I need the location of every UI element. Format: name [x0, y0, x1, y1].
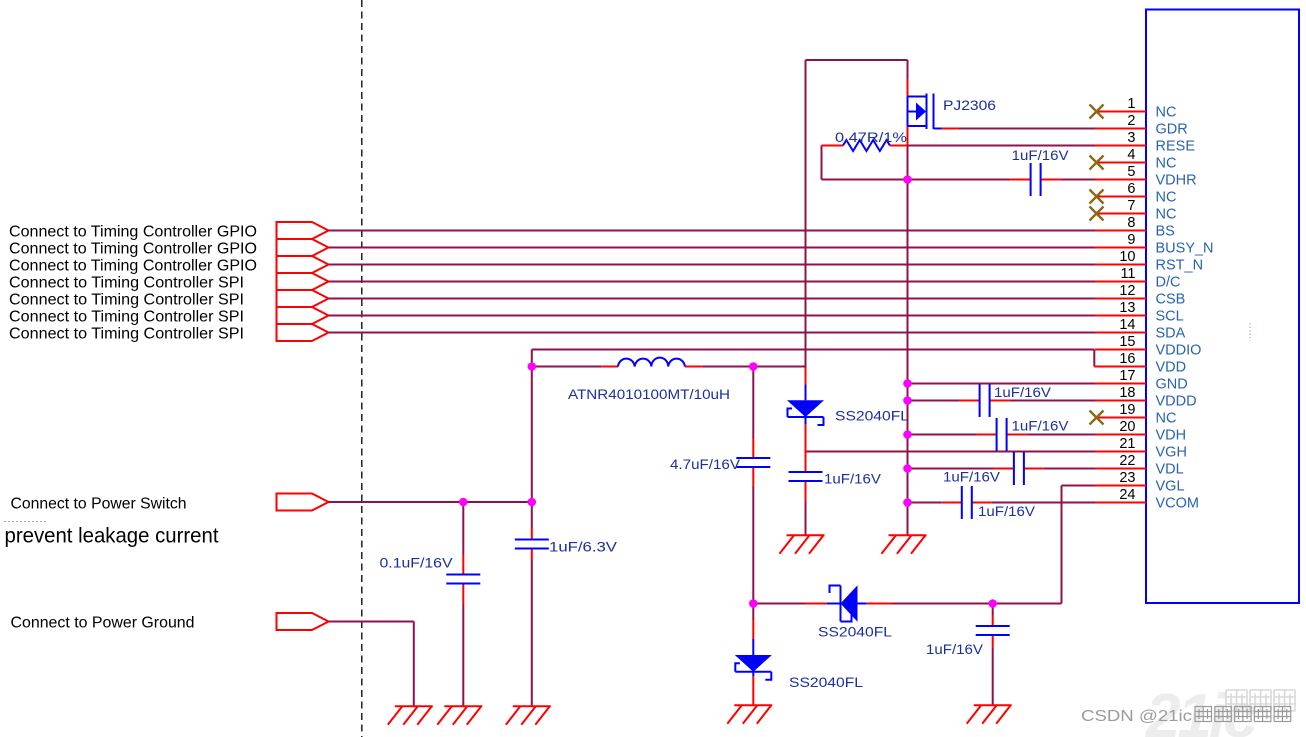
ground G5 (C10) — [967, 705, 1012, 724]
svg-text:ATNR4010100MT/10uH: ATNR4010100MT/10uH — [568, 386, 730, 402]
svg-text:prevent leakage current: prevent leakage current — [5, 525, 219, 548]
pin 20 stub — [1095, 434, 1146, 436]
svg-text:PJ2306: PJ2306 — [943, 97, 996, 113]
wire CSB row pin12 — [329, 298, 1096, 300]
svg-text:VDH: VDH — [1156, 428, 1187, 444]
svg-text:NC: NC — [1156, 156, 1177, 172]
node junction GND bus top — [903, 175, 912, 184]
wire D1 to VGH row and cap to ground — [805, 417, 807, 424]
node junction power row / V0 — [528, 498, 537, 507]
ground G3 (1uF/6.3V) — [506, 706, 551, 725]
svg-text:21: 21 — [1119, 436, 1135, 452]
port arrow Timing Controller line 2 — [277, 239, 329, 256]
port arrow Timing Controller line 1 — [277, 222, 329, 239]
wire VDH pin20 row with cap — [908, 434, 1096, 436]
pin 16 stub — [1094, 366, 1146, 368]
port arrow Timing Controller line 4 — [277, 273, 329, 290]
svg-text:1uF/16V: 1uF/16V — [1012, 418, 1070, 434]
pin 13 stub — [1095, 315, 1146, 317]
capacitor C2 4.7uF/16V — [736, 458, 770, 467]
wire VDDD pin18 row with cap — [908, 400, 1096, 402]
svg-text:1: 1 — [1127, 96, 1135, 112]
port arrow Power Ground — [277, 613, 329, 630]
pin 15 stub — [1095, 349, 1146, 351]
wire power ground run — [329, 622, 414, 707]
svg-text:Connect to Timing Controller G: Connect to Timing Controller GPIO — [9, 241, 257, 258]
wire left vertical drop x=805.5 (top loop to diode D1) — [805, 60, 807, 368]
pin 1 stub — [1095, 111, 1146, 113]
node junction GND bus p17 — [903, 379, 912, 388]
ground G2 (0.1uF) — [437, 706, 482, 725]
wire cap E branch x=992.7 — [992, 604, 994, 706]
wire BS row pin8 — [329, 230, 1096, 232]
capacitor C10 1uF/16V (VGL) — [976, 626, 1010, 635]
pin 6 stub — [1095, 196, 1146, 198]
pin 17 stub — [1095, 383, 1146, 385]
node junction GND bus p24 — [903, 498, 912, 507]
svg-text:4.7uF/16V: 4.7uF/16V — [670, 456, 741, 472]
svg-text:NC: NC — [1156, 207, 1177, 223]
no-connect X pin 7 — [1090, 207, 1104, 221]
svg-text:GND: GND — [1156, 377, 1188, 393]
svg-text:2: 2 — [1127, 113, 1135, 129]
svg-text:RESE: RESE — [1156, 139, 1196, 155]
pin 3 stub — [1095, 145, 1146, 147]
pin 21 stub — [1095, 451, 1146, 453]
svg-text:D/C: D/C — [1156, 275, 1181, 291]
svg-text:12: 12 — [1119, 283, 1135, 299]
pin 8 stub — [1095, 230, 1146, 232]
node junction GND bus p18 — [903, 396, 912, 405]
wire GND pin17 row — [908, 383, 1096, 385]
svg-text:3: 3 — [1127, 130, 1135, 146]
svg-text:CSB: CSB — [1156, 292, 1186, 308]
port arrow Power Switch — [277, 494, 329, 511]
wire VDDIO-VDD tie vertical x=1094.3 — [1093, 350, 1095, 367]
wire RESE pin3 row — [908, 145, 1096, 147]
port arrow Timing Controller line 7 — [277, 324, 329, 341]
svg-text:7: 7 — [1127, 198, 1135, 214]
port arrow Timing Controller line 6 — [277, 307, 329, 324]
svg-text:20: 20 — [1119, 419, 1135, 435]
svg-text:Connect to Timing Controller S: Connect to Timing Controller SPI — [9, 326, 244, 343]
svg-text:1uF/6.3V: 1uF/6.3V — [549, 539, 618, 555]
svg-text:23: 23 — [1119, 470, 1135, 486]
svg-text:5: 5 — [1127, 164, 1135, 180]
svg-text:CSDN @21ic: CSDN @21ic — [1081, 708, 1192, 725]
svg-text:18: 18 — [1119, 385, 1135, 401]
capacitor C9 1uF/6.3V — [515, 540, 549, 549]
diode D3 SS2040FL (Schottky, cathode down) — [735, 655, 772, 680]
svg-text:NC: NC — [1156, 105, 1177, 121]
pin 7 stub — [1095, 213, 1146, 215]
wire VGL pin23 corner — [1062, 486, 1096, 604]
port arrow Timing Controller line 3 — [277, 256, 329, 273]
transistor Q1 PJ2306 MOSFET — [908, 94, 942, 130]
pin 12 stub — [1095, 298, 1146, 300]
wire VCOM pin24 row with cap — [908, 502, 1096, 504]
svg-text:Connect to Timing Controller G: Connect to Timing Controller GPIO — [9, 258, 257, 275]
svg-text:Connect to Timing Controller S: Connect to Timing Controller SPI — [9, 309, 244, 326]
svg-text:NC: NC — [1156, 190, 1177, 206]
wire BUSY_N row pin9 — [329, 247, 1096, 249]
wire VDHR pin5 row with cap — [822, 179, 1096, 181]
svg-text:Connect to Timing Controller G: Connect to Timing Controller GPIO — [9, 224, 257, 241]
svg-text:Connect to Timing Controller S: Connect to Timing Controller SPI — [9, 292, 244, 309]
wire VDDIO pin15 row — [532, 349, 1095, 351]
no-connect X pin 4 — [1090, 156, 1104, 170]
capacitor C4 1uF/16V (VDDD) — [960, 384, 1010, 417]
pin 4 stub — [1095, 162, 1146, 164]
wire bottom row D (VGL net) — [753, 603, 1061, 605]
svg-text:8: 8 — [1127, 215, 1135, 231]
wire VDL pin22 row with cap — [908, 468, 1096, 470]
diode D2 SS2040FL (Schottky, cathode left) — [830, 585, 858, 621]
svg-text:4: 4 — [1127, 147, 1135, 163]
capacitor C1 1uF/16V (VDHR) — [1011, 163, 1061, 196]
svg-text:Connect to Timing Controller S: Connect to Timing Controller SPI — [9, 275, 244, 292]
no-connect X pin 1 — [1090, 105, 1104, 119]
wire SDA row pin14 — [329, 332, 1096, 334]
watermark 21ic logo — [1145, 682, 1257, 737]
svg-text:BS: BS — [1156, 224, 1175, 240]
svg-text:VDDIO: VDDIO — [1156, 343, 1202, 359]
svg-text:1uF/16V: 1uF/16V — [994, 384, 1052, 400]
port arrow Timing Controller line 5 — [277, 290, 329, 307]
pin 18 stub — [1095, 400, 1146, 402]
pin 11 stub — [1095, 281, 1146, 283]
node junction bottom row / C10 — [988, 599, 997, 608]
svg-text:1uF/16V: 1uF/16V — [1012, 147, 1070, 163]
dashed sheet boundary line — [361, 0, 363, 737]
wire gate to GDR pin2 — [942, 128, 960, 130]
ground G4 (D3 cathode) — [727, 705, 772, 724]
svg-text:0.47R/1%: 0.47R/1% — [835, 129, 907, 145]
node junction VDD row / V0 — [528, 362, 537, 371]
wire RST_N row pin10 — [329, 264, 1096, 266]
pin 19 stub — [1095, 417, 1146, 419]
pin 14 stub — [1095, 332, 1146, 334]
svg-text:VDDD: VDDD — [1156, 394, 1197, 410]
pin 22 stub — [1095, 468, 1146, 470]
node junction GND bus p22 — [903, 464, 912, 473]
svg-text:Connect to Power Ground: Connect to Power Ground — [11, 615, 195, 632]
watermark 电子网 characters — [1226, 690, 1295, 711]
svg-text:BUSY_N: BUSY_N — [1156, 241, 1214, 257]
svg-text:14: 14 — [1119, 317, 1135, 333]
svg-text:1uF/16V: 1uF/16V — [943, 469, 1001, 485]
svg-text:RST_N: RST_N — [1156, 258, 1204, 274]
svg-text:SS2040FL: SS2040FL — [789, 674, 863, 690]
wire drain stub red x=907.5 — [907, 60, 909, 79]
pin 10 stub — [1095, 264, 1146, 266]
wire inductor red leads — [602, 366, 703, 368]
resistor R1 0.47R — [822, 140, 908, 151]
capacitor C3 1uF/16V (below D1) — [789, 472, 823, 481]
svg-text:SS2040FL: SS2040FL — [835, 408, 909, 424]
svg-text:VGH: VGH — [1156, 445, 1187, 461]
wire D/C row pin11 — [329, 281, 1096, 283]
svg-text:NC: NC — [1156, 411, 1177, 427]
svg-text:1uF/16V: 1uF/16V — [926, 641, 984, 657]
wire MOSFET source lead down to 0.47R — [907, 126, 909, 146]
stray gray dashed mark — [4, 521, 47, 523]
svg-text:19: 19 — [1119, 402, 1135, 418]
wire 0.1uF branch x=463.3 — [462, 502, 464, 706]
svg-text:VDL: VDL — [1156, 462, 1184, 478]
wire x=907.5 vertical GND bus (0.47R junction down to ground) — [907, 146, 909, 536]
wire V2 vertical x=753.3 (VDD to bottom row) — [752, 367, 754, 621]
ground G1 (power ground) — [388, 706, 433, 725]
svg-text:VCOM: VCOM — [1156, 496, 1200, 512]
wire 0.47R left lead corner x=821.5 — [821, 146, 823, 180]
svg-text:VDD: VDD — [1156, 360, 1187, 376]
node junction VDD row / V2 — [749, 362, 758, 371]
wire SCL row pin13 — [329, 315, 1096, 317]
svg-text:24: 24 — [1119, 487, 1135, 503]
svg-text:VDHR: VDHR — [1156, 173, 1197, 189]
svg-text:16: 16 — [1119, 351, 1135, 367]
node junction bottom row / V2 — [749, 599, 758, 608]
no-connect X pin 19 — [1090, 411, 1104, 425]
svg-text:1uF/16V: 1uF/16V — [978, 503, 1036, 519]
ground G6 (C3) — [780, 535, 825, 554]
watermark CSDN @21ic line — [1081, 707, 1291, 726]
svg-text:6: 6 — [1127, 181, 1135, 197]
svg-text:15: 15 — [1119, 334, 1135, 350]
capacitor C5 1uF/16V (VDH) — [977, 418, 1027, 451]
svg-text:9: 9 — [1127, 232, 1135, 248]
wire power switch row — [329, 501, 532, 503]
pin 2 stub — [1095, 128, 1146, 130]
node junction power row / C8 — [459, 498, 468, 507]
svg-text:SDA: SDA — [1156, 326, 1186, 342]
no-connect X pin 6 — [1090, 190, 1104, 204]
stray blue dotted mark inside box — [1249, 323, 1251, 341]
svg-text:10: 10 — [1119, 249, 1135, 265]
svg-text:SS2040FL: SS2040FL — [818, 624, 892, 640]
svg-text:22: 22 — [1119, 453, 1135, 469]
capacitor C8 0.1uF/16V — [446, 575, 480, 584]
svg-text:11: 11 — [1120, 266, 1135, 282]
svg-text:Connect to Power Switch: Connect to Power Switch — [11, 496, 187, 513]
svg-text:SCL: SCL — [1156, 309, 1184, 325]
wire VGH pin21 row — [806, 451, 1096, 453]
svg-text:13: 13 — [1119, 300, 1135, 316]
wire V0 vertical x=531.8 (VDDIO down to power row and cap) — [531, 350, 533, 707]
capacitor C6 1uF/16V (VDL) — [994, 452, 1044, 485]
svg-text:VGL: VGL — [1156, 479, 1185, 495]
svg-text:1uF/16V: 1uF/16V — [824, 471, 882, 487]
capacitor C7 1uF/16V (VCOM) — [942, 486, 992, 519]
svg-text:0.1uF/16V: 0.1uF/16V — [380, 555, 454, 571]
svg-text:GDR: GDR — [1156, 122, 1188, 138]
ground G7 (GND bus) — [882, 535, 927, 554]
wire D3 branch below dot — [752, 620, 754, 639]
node junction GND bus p20 — [903, 430, 912, 439]
pin 23 stub — [1095, 485, 1146, 487]
wire D1 branch x=805.5 diode leads — [805, 368, 807, 385]
pin 5 stub — [1095, 179, 1146, 181]
diode D1 SS2040FL (Schottky, cathode down) — [787, 400, 824, 425]
pin 24 stub — [1095, 502, 1146, 504]
connector U1 box — [1146, 10, 1299, 604]
wire top loop horizontal (drain feed) — [806, 59, 908, 61]
wire VDD inductor row — [532, 366, 806, 368]
svg-text:17: 17 — [1119, 368, 1135, 384]
pin 9 stub — [1095, 247, 1146, 249]
inductor L1 ATNR4010100MT — [618, 358, 685, 367]
